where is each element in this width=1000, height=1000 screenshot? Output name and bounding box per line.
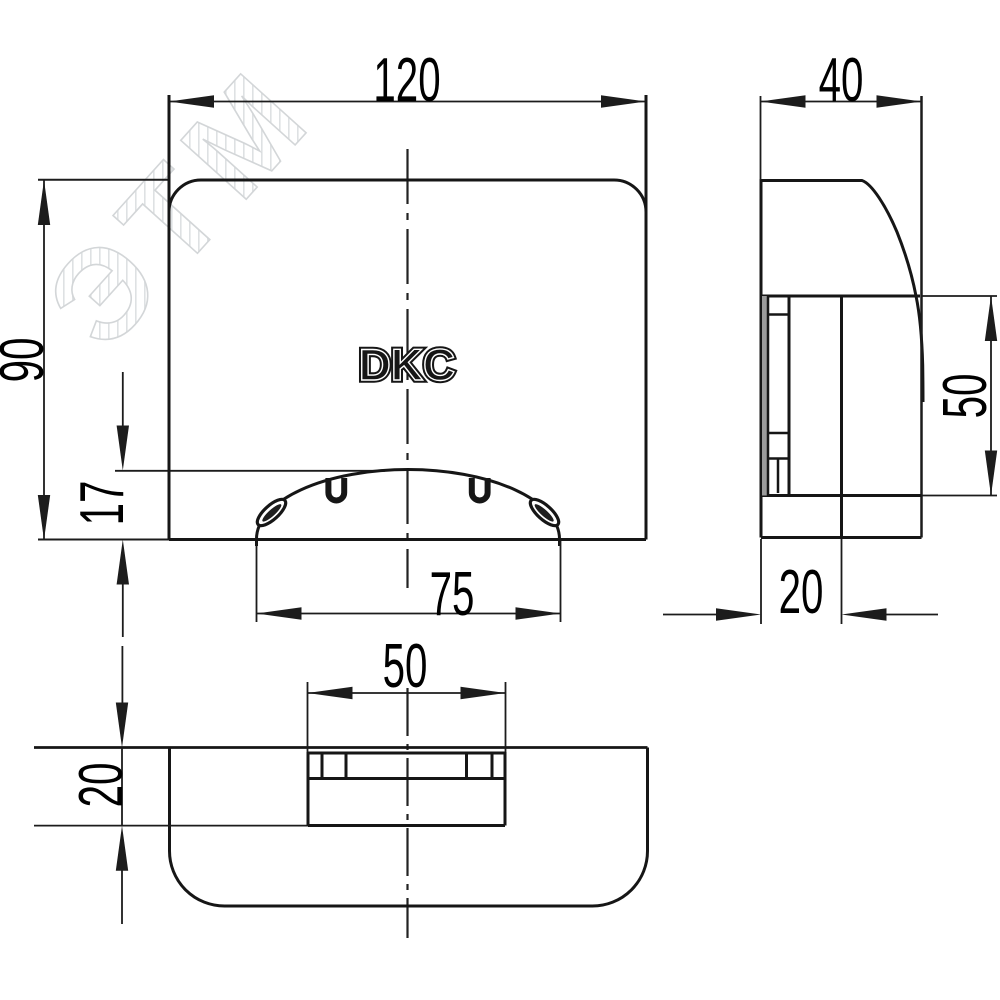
svg-text:90: 90 [0,338,57,383]
extension line bottom for 90 [38,539,169,541]
dim 50 bottom extension right [505,682,507,752]
side view 40 extension left [760,96,762,180]
extension line 75 left [256,541,258,622]
side view stub 1 [768,313,789,316]
dim 40 line [761,95,922,107]
side view divider line [840,296,843,538]
dim 75 line [257,607,561,619]
svg-text:75: 75 [430,560,475,629]
dim 50 bottom extension left [307,682,309,752]
right cable slot leaf [526,495,562,529]
bottom view trunking band [308,752,505,826]
side 20 extension right [841,539,843,624]
left cable slot leaf [253,495,289,529]
side view mini divider [777,459,780,494]
side view trunking wall line [788,296,791,496]
side view outline [761,181,923,538]
svg-text:DKC: DKC [359,341,455,390]
dim 50 side extensions [921,295,997,297]
dim 50 bottom line [308,687,506,699]
svg-text:20: 20 [779,558,824,627]
side view inner bottom line [761,494,921,497]
svg-text:20: 20 [67,763,136,808]
svg-text:120: 120 [373,46,440,115]
dim 17 leaders [117,372,129,637]
bottom 20 extension lower [34,825,308,827]
svg-text:40: 40 [819,46,864,115]
DKC logo [359,341,455,390]
dim 90 line [38,180,50,540]
bottom view outline [170,748,648,907]
svg-text:17: 17 [68,481,137,526]
right screw slot U [472,478,488,501]
extension line top for 90 [38,179,169,181]
side 20 extension left [760,539,762,624]
front view outline [169,95,646,540]
left screw slot U [328,478,344,501]
dim 120 line [169,95,646,107]
side view inner wall line [762,296,767,496]
side view stub 3 [768,457,789,460]
extension line 75 right [560,541,562,622]
arch opening front view [257,470,560,547]
dim 20 bottom leaders [116,646,128,924]
svg-text:50: 50 [931,374,1000,419]
side view right edge with 40 extension [920,96,923,538]
side view stub 2 [768,432,789,435]
centerline front view [406,149,408,588]
extension line for 17 [115,470,385,472]
dim 20 side leaders [663,608,938,620]
dim 50 side line [985,296,997,496]
side view inner top line [761,295,920,298]
centerline bottom view [406,688,408,938]
svg-text:50: 50 [383,632,428,701]
svg-text:ЭТМ: ЭТМ [20,37,343,373]
bottom view top edge with 20 extension [34,746,648,749]
